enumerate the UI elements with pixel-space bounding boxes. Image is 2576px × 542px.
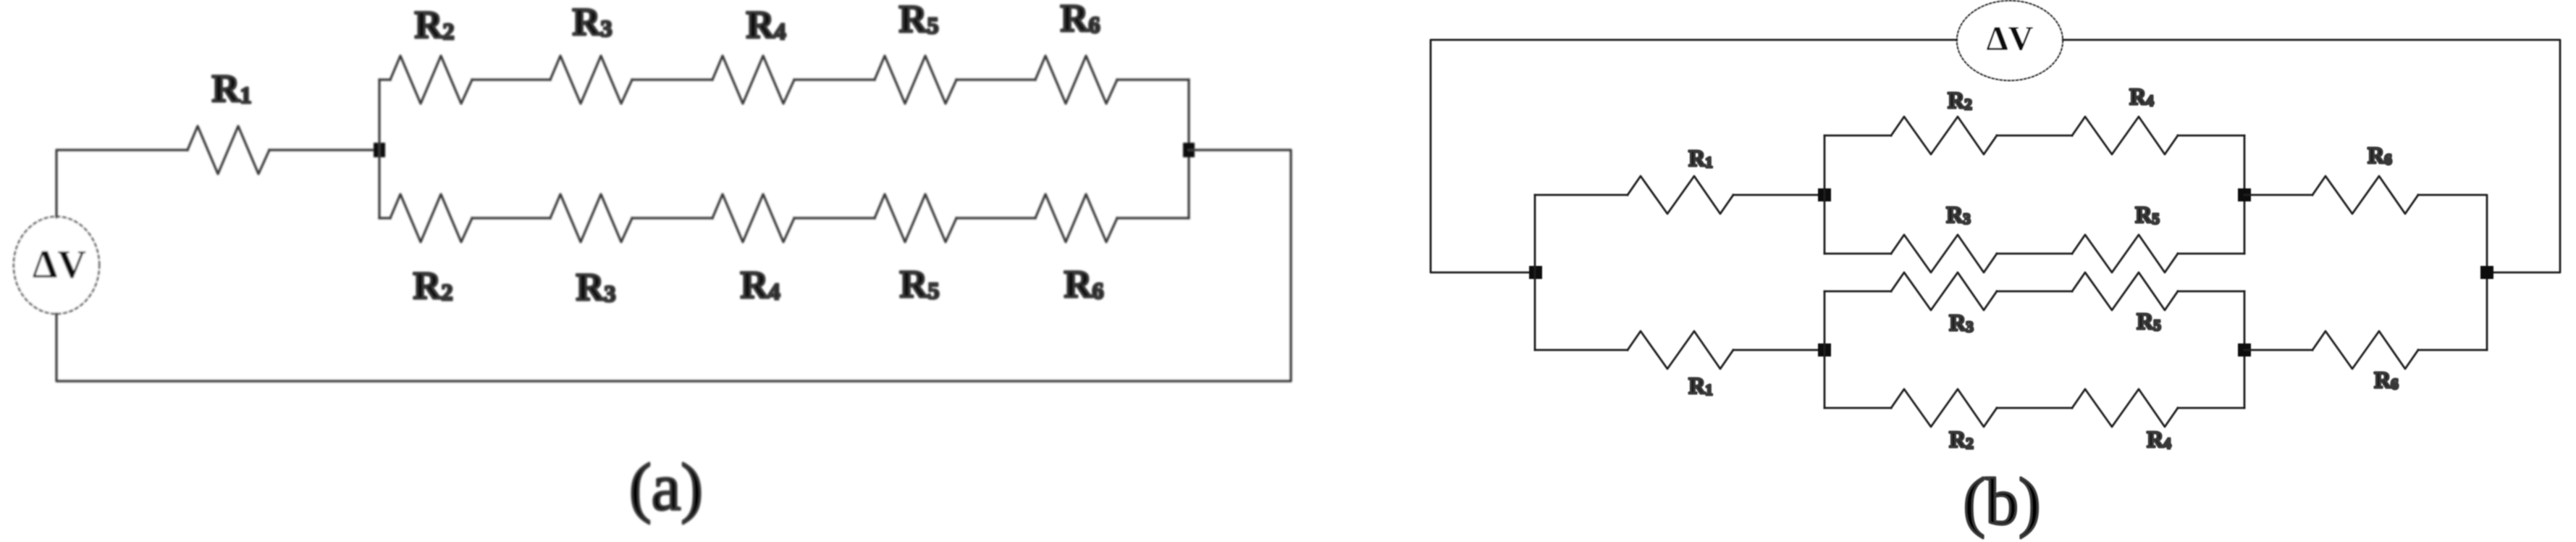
wire bottom box right vertical (b) [2244,291,2246,408]
svg-text:R3: R3 [1946,201,1971,228]
wire bottom box upper branch (b) [1824,291,2244,293]
svg-text:R4: R4 [2129,83,2154,109]
resistor R3 bottom box (b) [1891,272,1997,310]
svg-text:R6: R6 [1064,262,1104,306]
resistor R6 bottom branch (a) [1035,194,1117,242]
wire bottom branch (a) [379,217,1189,219]
svg-text:R6: R6 [2374,367,2399,393]
wire top rail right (b) [2063,40,2560,272]
svg-text:R3: R3 [576,265,616,309]
svg-text:R5: R5 [2137,308,2161,334]
wire R1 bottom branch (b) [1535,349,1824,351]
resistor R4 bottom box (b) [2072,389,2178,427]
resistor R3 top box (b) [1891,235,1997,272]
svg-text:R2: R2 [1949,426,1974,452]
wire top box left vertical (b) [1824,135,1826,254]
wire R6 top (b) [2244,195,2487,350]
node left junction (a) [374,143,385,157]
svg-text:ΔV: ΔV [1987,20,2034,58]
wire top box lower branch (b) [1824,253,2244,255]
svg-text:R2: R2 [415,3,455,46]
wire top box right vertical (b) [2244,135,2246,254]
svg-text:R4: R4 [746,3,786,46]
svg-text:R1: R1 [1688,372,1713,399]
resistor R1 (a) [188,126,269,174]
wire R1 top branch (b) [1535,194,1824,196]
resistor R5 top branch (a) [875,56,956,104]
resistor R4 top branch (a) [712,56,794,104]
svg-text:(a): (a) [629,450,703,524]
voltage source DV (a) [14,217,99,314]
resistor R2 bottom branch (a) [390,194,472,242]
resistor R5 bottom box (b) [2072,272,2178,310]
resistor R6 top (b) [2312,176,2418,214]
resistor R2 bottom box (b) [1891,389,1997,427]
wire source top to R1 (a) [56,150,188,217]
svg-text:R4: R4 [741,263,780,307]
wire right branch vertical (a) [1187,80,1190,218]
svg-text:(b): (b) [1963,464,2040,538]
svg-text:R6: R6 [1061,0,1100,40]
node A left junction (b) [1529,266,1542,279]
svg-text:R5: R5 [899,0,939,41]
wire left branch vertical (a) [378,80,380,218]
wire left split vertical (b) [1534,195,1536,350]
wire top rail left (b) [1431,40,1957,272]
svg-text:R5: R5 [2135,201,2160,228]
resistor R6 bottom (b) [2312,331,2418,369]
svg-text:R3: R3 [573,0,613,43]
wire top box upper branch (b) [1824,135,2244,137]
node F right junction (b) [2480,266,2493,279]
resistor R2 top box (b) [1891,117,1997,154]
node E junction (b) [2238,343,2251,357]
svg-text:R2: R2 [413,264,453,307]
svg-text:R2: R2 [1948,87,1972,113]
resistor R6 top branch (a) [1035,56,1117,104]
svg-text:R1: R1 [1688,145,1713,171]
voltage source DV (b) [1957,1,2063,80]
svg-text:ΔV: ΔV [33,242,86,286]
node D junction (b) [1818,343,1831,357]
resistor R5 bottom branch (a) [875,194,956,242]
resistor R3 bottom branch (a) [550,194,632,242]
resistor R1 bottom (b) [1628,331,1733,369]
svg-text:R6: R6 [2367,142,2392,168]
wire R1 to left node (a) [269,149,379,151]
resistor R5 top box (b) [2072,235,2178,272]
resistor R4 top box (b) [2072,117,2178,154]
resistor R3 top branch (a) [550,56,632,104]
svg-text:R1: R1 [212,67,252,110]
resistor R4 bottom branch (a) [712,194,794,242]
node C junction (b) [2238,188,2251,201]
resistor R2 top branch (a) [390,56,472,104]
wire return loop (a) [56,150,1291,381]
svg-text:R4: R4 [2147,426,2171,452]
node B junction (b) [1818,188,1831,201]
wire bottom box left vertical (b) [1824,291,1826,408]
svg-text:R3: R3 [1949,309,1974,335]
node right junction (a) [1183,143,1195,157]
svg-text:R5: R5 [900,262,940,306]
wire bottom box lower branch (b) [1824,407,2244,409]
wire R6 bottom (b) [2244,349,2487,351]
resistor R1 top (b) [1628,176,1733,214]
wire top branch (a) [379,78,1189,80]
